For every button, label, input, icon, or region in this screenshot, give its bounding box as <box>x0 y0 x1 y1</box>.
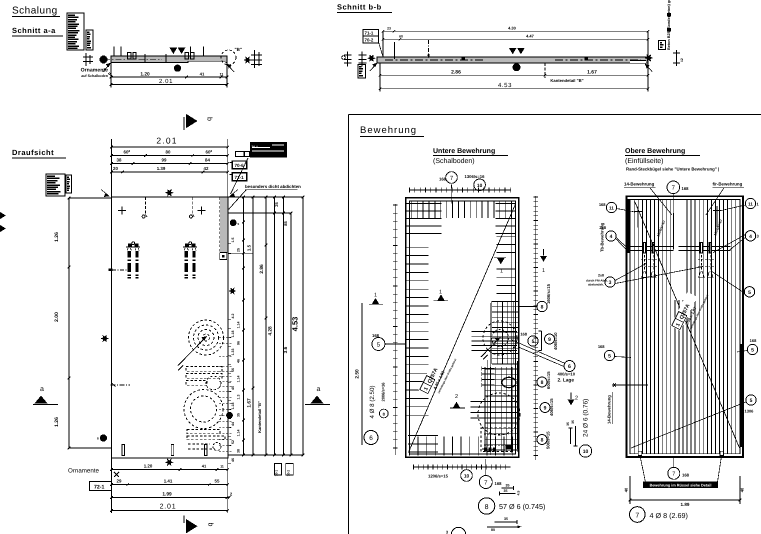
svg-text:Untere Bewehrung: Untere Bewehrung <box>433 147 495 155</box>
section b-b fill triangles <box>509 48 517 54</box>
svg-text:20: 20 <box>113 166 118 171</box>
untere long edge bar right <box>510 206 512 453</box>
svg-text:4.47: 4.47 <box>526 33 535 38</box>
plan dot near strip <box>230 219 237 226</box>
section a-a centerline <box>104 58 162 60</box>
untere panel outline <box>406 198 519 458</box>
svg-text:35: 35 <box>236 413 240 417</box>
untere right bubble 8 1606 <box>537 301 547 311</box>
svg-text:96: 96 <box>236 341 240 345</box>
section a-a left end circle <box>100 56 108 64</box>
obere left leader arrow <box>612 384 648 386</box>
section b-b centerline <box>385 59 485 61</box>
svg-text:23: 23 <box>387 26 391 30</box>
svg-text:168: 168 <box>439 177 447 182</box>
untere left column edge bars <box>407 246 429 248</box>
svg-text:14-Bewehrung: 14-Bewehrung <box>624 182 655 187</box>
section b-b bottom circle <box>513 63 521 71</box>
untere rotated bracket 35 <box>570 428 572 444</box>
svg-text:24 Ø 6 (0.76): 24 Ø 6 (0.76) <box>583 399 590 437</box>
section b-b left symbols <box>347 52 349 67</box>
svg-text:2.01: 2.01 <box>156 136 177 146</box>
svg-text:4.30: 4.30 <box>508 25 517 30</box>
svg-text:40: 40 <box>740 487 745 492</box>
svg-text:1.33: 1.33 <box>231 349 235 356</box>
svg-text:a: a <box>40 386 44 393</box>
svg-text:Beton B25 (Sonderbeton) gem.: Beton B25 (Sonderbeton) gem. <box>667 0 671 50</box>
svg-text:b: b <box>206 117 214 121</box>
svg-text:2.01: 2.01 <box>159 78 173 85</box>
svg-text:168: 168 <box>682 472 690 477</box>
plan top dim row 60-80-60 <box>111 155 227 157</box>
svg-text:10: 10 <box>477 183 483 189</box>
svg-text:Rand-Steckbügel siehe "Untere: Rand-Steckbügel siehe "Untere Bewehrung"… <box>626 167 719 172</box>
bubble 5 mid left obere <box>604 350 614 360</box>
svg-text:1.14: 1.14 <box>236 430 240 437</box>
svg-text:1: 1 <box>439 290 442 296</box>
svg-text:1.89: 1.89 <box>681 502 690 507</box>
plan section marker b top <box>183 117 185 130</box>
svg-text:168: 168 <box>598 344 605 349</box>
obere mesh label Q257A <box>670 286 709 335</box>
obere anchor group 1 <box>643 242 646 254</box>
svg-text:6: 6 <box>568 364 571 370</box>
plan dot right mid <box>226 412 233 419</box>
section a-a right notch <box>188 61 225 63</box>
section b-b extension lines <box>382 31 384 57</box>
untere mesh grid upper <box>491 301 493 364</box>
section a-a corner arrow right <box>228 65 235 73</box>
svg-text:Schalung: Schalung <box>12 6 58 17</box>
untere long verticals right zone <box>490 303 492 455</box>
svg-text:52: 52 <box>231 440 235 444</box>
svg-text:Schnitt a-a: Schnitt a-a <box>12 26 56 35</box>
untere right bubble 9 406s10 <box>545 334 555 344</box>
section a-a corner arrow left <box>103 64 110 73</box>
untere top corner edge bars <box>407 203 442 205</box>
plan bottom small boxes <box>275 464 282 476</box>
svg-text:1.5: 1.5 <box>231 238 235 243</box>
svg-text:f/r-Bewehrung: f/r-Bewehrung <box>713 182 743 187</box>
svg-text:11: 11 <box>220 72 224 76</box>
svg-text:25: 25 <box>274 202 279 207</box>
bewehrung frame <box>348 114 761 116</box>
svg-text:(Einfüllseite): (Einfüllseite) <box>625 157 664 165</box>
section b-b top dim line 2 <box>383 38 648 40</box>
svg-text:56: 56 <box>231 368 235 372</box>
svg-text:35: 35 <box>506 483 510 487</box>
svg-text:4.53: 4.53 <box>291 317 300 332</box>
obere pos bubble 7 top <box>667 181 680 194</box>
plan star bottom edge <box>165 458 174 466</box>
svg-text:70-2: 70-2 <box>365 38 374 43</box>
section a-a concrete bar <box>111 56 227 63</box>
untere pos bubble 9 clipped <box>451 527 465 534</box>
svg-text:2.00: 2.00 <box>54 312 60 322</box>
untere right bubble 9 406s15 <box>540 403 550 413</box>
untere bottom dim line <box>413 466 511 468</box>
svg-text:1.67: 1.67 <box>247 398 253 408</box>
svg-text:1.67: 1.67 <box>587 69 597 75</box>
sheet edge marks <box>0 212 6 219</box>
svg-text:3.6: 3.6 <box>283 346 289 353</box>
svg-text:1: 1 <box>374 293 377 299</box>
svg-text:1.18: 1.18 <box>231 403 235 410</box>
svg-text:406/s=15: 406/s=15 <box>549 398 554 416</box>
obere cross mark right <box>713 210 721 212</box>
obere detail note black bar <box>643 481 718 487</box>
svg-text:288: 288 <box>599 225 606 230</box>
label box 70-2 <box>363 36 379 43</box>
svg-text:2. Lage: 2. Lage <box>558 378 575 384</box>
svg-text:besonders dicht abdichten: besonders dicht abdichten <box>245 184 301 189</box>
svg-text:11: 11 <box>748 202 753 207</box>
svg-text:1206/s=15: 1206/s=15 <box>428 474 449 479</box>
svg-text:3: 3 <box>609 280 612 286</box>
obere diagonal mesh line <box>635 202 740 448</box>
untere pos bubble 10 rotated <box>579 445 591 457</box>
section a-a detail circle B <box>221 50 236 65</box>
plan dashdot stub upper <box>108 269 112 272</box>
svg-text:8: 8 <box>541 438 544 444</box>
svg-text:4 Ø 8 (2.50): 4 Ø 8 (2.50) <box>369 385 376 418</box>
svg-text:12: 12 <box>680 58 684 62</box>
untere section marker 1 outside right <box>543 249 545 256</box>
svg-text:11: 11 <box>220 464 224 468</box>
svg-text:7: 7 <box>672 472 675 478</box>
svg-text:4.2: 4.2 <box>231 314 235 319</box>
svg-text:5: 5 <box>750 398 753 404</box>
svg-text:600/s=15: 600/s=15 <box>546 371 551 389</box>
plan ornament ellipse <box>206 376 221 390</box>
plan star right column <box>228 288 236 295</box>
svg-text:99: 99 <box>162 157 167 162</box>
svg-text:(Schalboden): (Schalboden) <box>433 157 475 165</box>
untere right bubble 5 <box>528 336 538 346</box>
untere left bubble 5 <box>372 338 385 351</box>
plan cross mark left <box>118 210 126 212</box>
svg-text:168: 168 <box>520 332 527 337</box>
plan hanger symbol left <box>144 197 146 215</box>
plan joint strip grey <box>220 197 228 252</box>
svg-text:1: 1 <box>542 268 545 274</box>
untere bottom corner edge bars <box>408 435 438 437</box>
plan top dim row 38-99-64 <box>111 163 227 165</box>
section a-a ticks above bar <box>113 47 115 57</box>
svg-text:1.39: 1.39 <box>157 166 166 171</box>
section a-a bottom circle <box>174 65 181 72</box>
plan dot bottom left <box>100 434 107 441</box>
untere top dim line <box>409 189 511 191</box>
svg-text:55: 55 <box>215 478 220 483</box>
untere diagonal mesh line <box>409 203 516 451</box>
svg-text:46: 46 <box>236 359 240 363</box>
section a-a dimension line 2.01 <box>111 84 227 86</box>
untere left dim 2.50 extent <box>361 303 363 445</box>
plan star left <box>100 335 109 342</box>
svg-text:14-Bewehrung: 14-Bewehrung <box>607 395 612 424</box>
section b-b dim 2.86 / 1.67 <box>380 74 648 76</box>
svg-text:5: 5 <box>608 354 611 360</box>
obere anchor group 2 <box>700 242 703 254</box>
svg-text:406/s=10: 406/s=10 <box>553 332 558 350</box>
plan label small boxes <box>236 152 245 157</box>
svg-text:1.26: 1.26 <box>54 232 60 242</box>
section a-a cross tick <box>144 54 146 63</box>
obere pos bubble 7 count <box>630 507 646 523</box>
plan small posts bottom <box>122 445 124 456</box>
svg-text:Ornamente: Ornamente <box>68 468 100 475</box>
svg-text:1.18: 1.18 <box>231 331 235 338</box>
section a-a anchor symbol right <box>185 53 188 60</box>
svg-text:4.28: 4.28 <box>268 326 274 336</box>
stamp box 1 <box>67 13 84 50</box>
obere panel outline <box>627 196 744 457</box>
svg-text:4 Ø 8 (2.69): 4 Ø 8 (2.69) <box>650 511 688 520</box>
untere bottom right black bits <box>506 445 512 450</box>
svg-text:1606/s=15: 1606/s=15 <box>546 283 551 304</box>
plan ornament slots <box>186 367 222 372</box>
obere vertical bars <box>629 200 631 454</box>
svg-text:35: 35 <box>571 420 575 424</box>
untere section marker 2 outside right <box>570 393 572 400</box>
untere pos bubble 10 bottom <box>461 470 473 482</box>
svg-text:4.53: 4.53 <box>498 82 512 89</box>
svg-text:2x8: 2x8 <box>598 274 604 278</box>
svg-text:Obere Bewehrung: Obere Bewehrung <box>625 147 685 155</box>
svg-text:Bewehrung: Bewehrung <box>360 125 417 136</box>
untere top band transverse bars <box>410 201 412 218</box>
svg-text:71-1: 71-1 <box>365 31 374 36</box>
svg-text:2006/s=16: 2006/s=16 <box>381 382 386 402</box>
svg-text:57 Ø 6 (0.745): 57 Ø 6 (0.745) <box>499 502 545 511</box>
svg-text:38: 38 <box>236 449 240 453</box>
section b-b right symbols <box>644 54 653 62</box>
untere bottom band transverse bars <box>409 437 411 456</box>
plan dashdot stub lower <box>111 384 131 386</box>
svg-text:40: 40 <box>623 487 628 492</box>
svg-text:168: 168 <box>682 186 690 191</box>
svg-text:4.5: 4.5 <box>517 491 521 496</box>
label box 71-1 <box>363 29 379 36</box>
plan ornament spiral arrow <box>178 338 206 366</box>
svg-text:2: 2 <box>575 396 578 402</box>
obere right bubble 4 <box>745 231 755 241</box>
section b-b anchor marks <box>462 57 466 60</box>
svg-text:1.14: 1.14 <box>236 322 240 329</box>
plan lifting anchor group 2 <box>183 246 197 248</box>
untere mesh patch C <box>484 367 486 452</box>
svg-text:2.86: 2.86 <box>451 69 461 75</box>
svg-text:1.99: 1.99 <box>162 491 172 497</box>
plan label box 71-1 <box>232 173 247 181</box>
svg-text:1.20: 1.20 <box>140 71 150 77</box>
svg-text:2.50: 2.50 <box>355 369 361 379</box>
svg-text:70-6: 70-6 <box>235 163 245 168</box>
obere right bubble 5 lower <box>746 395 756 405</box>
plan stamp box 2 <box>66 175 72 193</box>
svg-text:5: 5 <box>751 348 754 354</box>
plan ornament big circle <box>184 390 223 429</box>
plan label leader to corner <box>231 158 249 194</box>
svg-text:76-1: 76-1 <box>252 145 259 149</box>
plan top dim row 20-1.39-42 <box>111 171 227 173</box>
svg-text:80: 80 <box>166 149 171 154</box>
obere cross mark left <box>634 210 642 212</box>
plan section marker b bottom <box>183 516 185 524</box>
svg-text:1.20: 1.20 <box>144 463 153 468</box>
svg-text:168: 168 <box>750 338 757 343</box>
obere corner squares bottom <box>638 451 642 455</box>
untere right bubble 6 2 Lage <box>511 340 565 364</box>
svg-text:506/s=15: 506/s=15 <box>545 431 550 449</box>
untere bottom ornament dashed rect <box>481 428 512 452</box>
svg-text:5: 5 <box>748 290 751 296</box>
svg-text:400/s=10: 400/s=10 <box>558 372 576 377</box>
svg-text:"B": "B" <box>235 47 243 52</box>
svg-text:1306/s=16: 1306/s=16 <box>465 174 486 179</box>
section b-b left corner arrow <box>370 64 377 72</box>
svg-text:60: 60 <box>399 34 403 38</box>
obere pos bubble 7 bottom <box>668 467 680 479</box>
untere pos bubble 10 top <box>474 179 486 191</box>
obere bottom leaders <box>640 455 645 482</box>
svg-text:1.41: 1.41 <box>164 478 173 483</box>
svg-text:72-1: 72-1 <box>94 485 104 491</box>
svg-text:7: 7 <box>635 512 639 519</box>
section b-b right notch <box>630 60 646 62</box>
plan hanger symbol right <box>192 197 194 215</box>
untere pos bubble 7 bottom <box>485 459 487 476</box>
svg-text:70-2: 70-2 <box>286 470 290 477</box>
section b-b concrete bar <box>377 57 648 63</box>
svg-text:41: 41 <box>200 71 205 76</box>
svg-text:41: 41 <box>202 463 207 468</box>
section b-b top dim line 1 <box>383 30 648 32</box>
untere short bars row <box>482 368 495 370</box>
svg-text:b: b <box>207 523 215 527</box>
svg-text:168: 168 <box>372 333 380 338</box>
svg-text:2.86: 2.86 <box>259 264 265 274</box>
svg-text:6: 6 <box>369 435 373 442</box>
svg-text:auf Schalboden: auf Schalboden <box>81 74 108 78</box>
svg-text:168: 168 <box>495 481 503 486</box>
svg-text:Bewehrung im Rüssel siehe Deta: Bewehrung im Rüssel siehe Detail <box>650 483 712 487</box>
svg-text:8: 8 <box>541 305 544 311</box>
untere ornament spiral ghost <box>483 321 517 355</box>
svg-text:8: 8 <box>485 504 489 511</box>
obere bottom dim 1.89 <box>629 476 631 504</box>
plan label black box <box>251 143 287 158</box>
obere right bubble 11 <box>745 198 755 208</box>
svg-text:1.3: 1.3 <box>236 395 240 400</box>
svg-text:8: 8 <box>541 380 544 386</box>
section a-a right symbols <box>243 56 251 63</box>
bubble 4 left <box>606 231 616 241</box>
plan left dim line <box>68 198 70 448</box>
svg-text:40: 40 <box>231 386 235 390</box>
plan star top edge <box>165 189 174 197</box>
untere pos bubble 7 top <box>446 172 458 184</box>
svg-text:11: 11 <box>609 206 614 211</box>
section b-b dim 4.53 <box>380 88 648 90</box>
obere thick edge bar left top <box>628 199 631 253</box>
bubble 11 left <box>606 202 616 212</box>
svg-text:35: 35 <box>504 517 508 521</box>
svg-text:84: 84 <box>205 157 210 162</box>
plan outline rectangle <box>111 197 227 458</box>
plan right dimension lines <box>110 196 112 198</box>
obere right bubble 5 upper <box>744 287 754 297</box>
svg-text:35: 35 <box>504 489 508 493</box>
svg-text:46: 46 <box>231 458 235 462</box>
section a-a left edge glyph <box>85 53 87 66</box>
svg-text:85: 85 <box>283 221 288 226</box>
untere mesh label Q257A <box>418 350 457 399</box>
svg-text:1306: 1306 <box>745 409 755 414</box>
svg-text:1: 1 <box>500 269 503 275</box>
plan ornament slots bottom <box>187 430 220 434</box>
obere thick edge bar right bottom <box>739 344 742 447</box>
section b-b right corner arrow <box>646 65 653 72</box>
untere mesh circle small <box>502 377 516 387</box>
plan ornament spiral circles <box>189 320 224 355</box>
untere edge thick bar right <box>517 361 520 449</box>
untere mesh circle B <box>478 393 520 435</box>
svg-text:9: 9 <box>548 337 551 343</box>
section a-a fill direction triangles <box>170 48 178 55</box>
svg-text:a: a <box>317 386 321 393</box>
plan stamp box <box>46 174 65 196</box>
untere right dim line <box>535 196 537 460</box>
svg-text:35: 35 <box>566 422 570 426</box>
svg-text:4: 4 <box>610 234 613 240</box>
plan bottom dim 1.99 <box>111 497 229 499</box>
untere left dim line <box>394 204 396 455</box>
plan cross mark right <box>198 210 206 212</box>
svg-text:1.14: 1.14 <box>236 376 240 383</box>
obere shallow leader diagonal <box>631 402 746 448</box>
untere right bubble 8 506 <box>537 435 547 445</box>
svg-text:5: 5 <box>532 339 535 345</box>
svg-text:38: 38 <box>117 157 122 162</box>
svg-text:44: 44 <box>231 422 235 426</box>
svg-text:2.01: 2.01 <box>160 503 177 510</box>
svg-text:29: 29 <box>117 478 122 483</box>
svg-text:abstandsh.: abstandsh. <box>588 283 604 287</box>
svg-text:Ornamente: Ornamente <box>81 68 109 74</box>
svg-text:42: 42 <box>204 166 209 171</box>
untere mid bars cluster left <box>471 331 517 333</box>
svg-text:168: 168 <box>599 202 606 207</box>
svg-text:25: 25 <box>236 248 240 252</box>
svg-text:10: 10 <box>583 449 589 455</box>
svg-text:Draufsicht: Draufsicht <box>12 148 54 157</box>
section a-a dimension line 1.20 <box>110 63 112 88</box>
svg-text:10: 10 <box>464 474 470 480</box>
svg-text:2: 2 <box>455 394 458 400</box>
section b-b tick above <box>393 42 395 59</box>
svg-text:70-1: 70-1 <box>275 470 279 477</box>
plan lifting anchor group 1 <box>126 246 140 248</box>
svg-text:1.5: 1.5 <box>247 244 252 251</box>
plan label box 72-1 <box>90 482 112 491</box>
svg-text:80: 80 <box>491 528 495 532</box>
bubble 3 left <box>605 277 615 287</box>
untere right bubble 8 600 <box>537 377 547 387</box>
plan bottom dim 29-1.41-55 <box>111 484 227 486</box>
plan label box 70-6 <box>232 161 247 169</box>
